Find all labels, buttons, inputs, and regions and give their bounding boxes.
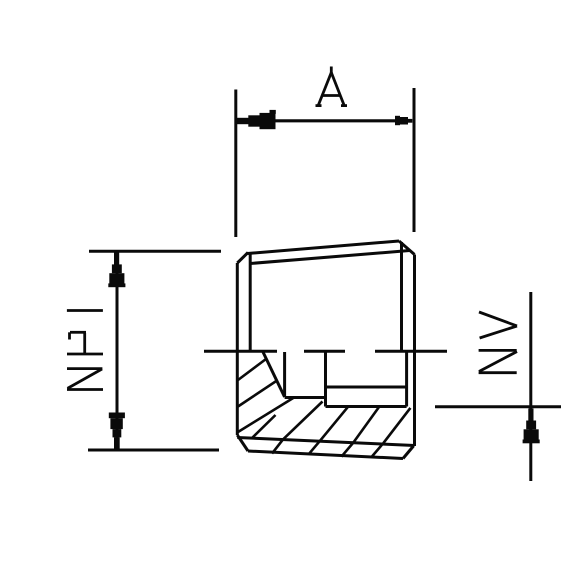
body back top edge <box>248 241 400 254</box>
body top-right chamfer <box>399 241 415 255</box>
dimension NPT bottom arrowhead <box>109 413 125 449</box>
hatch line f <box>353 407 379 443</box>
hatch line d band segment <box>272 439 283 453</box>
letter N <box>479 349 517 352</box>
hatch line a <box>238 359 266 380</box>
hatch line e band segment <box>309 441 320 455</box>
hatch line d <box>283 402 323 440</box>
letter P <box>67 353 103 356</box>
body left edge <box>236 263 239 435</box>
socket slanted wall <box>263 352 285 397</box>
socket floor 1 <box>285 396 326 399</box>
dimension A left extension line <box>234 90 237 238</box>
hatch line e <box>320 407 348 441</box>
centerline dash 2 <box>304 350 345 353</box>
letter T <box>67 309 103 312</box>
label NV (rotated letters) <box>479 312 517 373</box>
dimension A left arrowhead <box>237 110 276 129</box>
dimension A right arrowhead <box>395 116 412 125</box>
dimension NPT bottom extension line <box>88 449 219 452</box>
hatch line g <box>383 408 410 443</box>
body front-left edge <box>249 253 252 351</box>
hatch line c2 <box>252 415 276 439</box>
letter N <box>67 367 102 370</box>
socket mid line <box>326 386 407 389</box>
dimension NPT dimension line <box>116 252 119 449</box>
letter V <box>479 312 517 326</box>
body front-right edge <box>400 242 403 350</box>
socket left wall <box>283 352 286 397</box>
dimension A dimension line <box>236 119 412 122</box>
dimension A right extension line <box>413 88 416 232</box>
centerline dash 1 <box>204 350 277 353</box>
socket step wall <box>324 352 327 407</box>
socket right wall <box>405 352 408 407</box>
hatching <box>238 359 410 457</box>
dimension NPT top extension line <box>89 250 221 253</box>
body bottom front edge <box>248 451 403 459</box>
body bottom-left chamfer <box>237 435 248 451</box>
socket floor 2 <box>326 405 407 408</box>
dimension A label <box>316 67 348 106</box>
body bottom back edge <box>237 438 414 446</box>
hatch line b <box>238 381 277 407</box>
centerline dash 3 <box>375 350 447 353</box>
body top-left chamfer <box>237 253 248 264</box>
body front top edge <box>250 251 409 264</box>
dimension NV dimension line <box>529 292 532 481</box>
body right edge <box>413 255 416 447</box>
dimension NV arrowhead <box>523 409 540 444</box>
hatch line g band segment <box>371 443 383 457</box>
dimension NPT top arrowhead <box>108 253 125 288</box>
hatch line f band segment <box>341 443 353 457</box>
dimension NV extension line <box>435 405 561 408</box>
label NPT (rotated letters) <box>67 311 103 390</box>
body bottom-right chamfer <box>403 446 414 459</box>
hatch line c <box>238 398 294 433</box>
